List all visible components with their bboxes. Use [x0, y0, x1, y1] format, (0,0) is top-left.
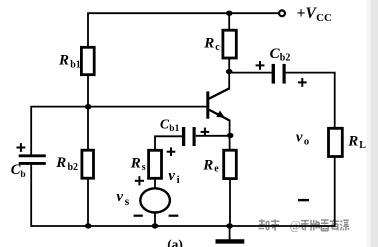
svg-text:R: R: [203, 36, 214, 52]
svg-text:v: v: [296, 129, 303, 145]
svg-text:C: C: [11, 162, 21, 178]
svg-text:c: c: [215, 42, 220, 53]
svg-text:R: R: [202, 157, 213, 173]
svg-text:+VCC: +VCC: [297, 5, 332, 24]
svg-text:b1: b1: [169, 124, 179, 134]
svg-text:R: R: [58, 53, 69, 69]
svg-text:e: e: [214, 164, 219, 175]
svg-text:R: R: [347, 133, 358, 149]
svg-text:b2: b2: [68, 162, 79, 173]
svg-text:i: i: [177, 174, 180, 186]
svg-text:L: L: [359, 140, 366, 151]
svg-text:v: v: [116, 189, 123, 205]
svg-text:v: v: [168, 168, 175, 184]
svg-text:(a): (a): [167, 237, 183, 247]
svg-text:b: b: [20, 170, 25, 180]
svg-text:o: o: [304, 136, 309, 147]
svg-text:b1: b1: [70, 59, 81, 70]
svg-text:b2: b2: [280, 52, 291, 63]
svg-text:s: s: [142, 162, 146, 173]
svg-text:R: R: [55, 155, 66, 171]
svg-text:s: s: [125, 196, 130, 208]
svg-text:R: R: [130, 156, 141, 172]
